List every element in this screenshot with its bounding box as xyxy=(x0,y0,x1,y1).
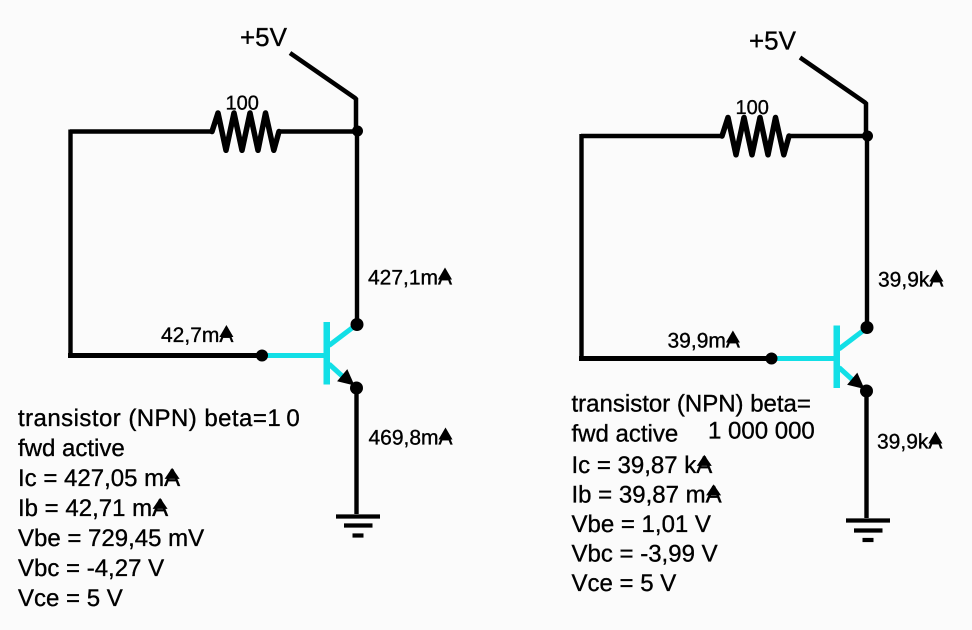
svg-text:Vbe = 729,45 mV: Vbe = 729,45 mV xyxy=(18,525,204,552)
svg-text:100: 100 xyxy=(226,93,259,115)
svg-text:transistor (NPN) beta=: transistor (NPN) beta= xyxy=(572,391,811,418)
svg-text:1 000 000: 1 000 000 xyxy=(708,418,815,445)
svg-text:Ib = 42,71 mA: Ib = 42,71 mA xyxy=(18,495,168,522)
svg-text:Vce = 5 V: Vce = 5 V xyxy=(572,570,677,597)
svg-text:Ic = 39,87 kA: Ic = 39,87 kA xyxy=(572,452,713,479)
svg-text:Vbe = 1,01 V: Vbe = 1,01 V xyxy=(572,511,711,538)
svg-text:+5V: +5V xyxy=(749,26,797,56)
svg-text:fwd active: fwd active xyxy=(18,435,125,462)
svg-text:Vbc = -3,99 V: Vbc = -3,99 V xyxy=(572,541,718,568)
svg-text:100: 100 xyxy=(736,97,769,119)
svg-text:Ic = 427,05 mA: Ic = 427,05 mA xyxy=(18,465,180,492)
svg-text:transistor (NPN) beta=1 0: transistor (NPN) beta=1 0 xyxy=(18,405,300,432)
svg-text:+5V: +5V xyxy=(240,22,288,52)
svg-text:Vbc = -4,27 V: Vbc = -4,27 V xyxy=(18,555,164,582)
svg-text:Ib = 39,87 mA: Ib = 39,87 mA xyxy=(572,482,722,509)
svg-text:fwd active: fwd active xyxy=(572,421,679,448)
svg-text:Vce = 5 V: Vce = 5 V xyxy=(18,585,123,612)
